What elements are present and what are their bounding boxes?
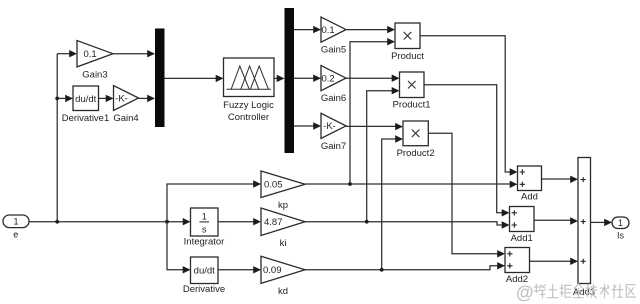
wire ki-branch up to Product1 in2 [367, 91, 392, 222]
svg-text:Product2: Product2 [397, 148, 435, 159]
wire kd-branch up to Product2 in2 [382, 139, 396, 270]
gain Gain5 [321, 17, 346, 56]
svg-text:-K-: -K- [323, 121, 336, 132]
wire branch up to kp [167, 184, 255, 222]
wire Integrator to ki [218, 221, 254, 223]
svg-text:kp: kp [278, 200, 288, 211]
svg-text:Add: Add [521, 192, 538, 203]
wire Add2 out to Add3 [530, 260, 571, 262]
gain kp [261, 171, 305, 211]
node junction e-up [55, 220, 59, 224]
wire Derivative1 to Gain4 [99, 97, 107, 99]
block Add2 [505, 248, 530, 273]
wire Demux out3 to Gain7 [294, 125, 314, 127]
gain Gain6 [321, 66, 346, 105]
svg-text:1: 1 [13, 217, 18, 227]
demux bar [285, 8, 295, 153]
wire to Gain3 [57, 53, 69, 55]
mux bar [155, 29, 165, 128]
svg-text:1: 1 [618, 218, 623, 228]
svg-text:Gain5: Gain5 [321, 45, 346, 56]
svg-text:0.1: 0.1 [84, 49, 97, 60]
wire kp out to Add in2 [305, 183, 511, 185]
svg-text:Gain4: Gain4 [113, 113, 138, 124]
block Add3 [578, 158, 591, 284]
svg-text:Gain3: Gain3 [82, 69, 107, 80]
svg-text:Product: Product [391, 51, 424, 62]
svg-text:ki: ki [280, 238, 287, 249]
svg-text:Derivative: Derivative [183, 284, 225, 295]
svg-text:s: s [202, 225, 207, 235]
wire Product1 out to Add1 in1 [424, 85, 502, 213]
watermark [516, 283, 636, 303]
svg-text:du/dt: du/dt [75, 94, 96, 105]
svg-text:0.1: 0.1 [322, 25, 335, 36]
block Derivative1 [73, 86, 99, 111]
node junction pid branch [165, 220, 169, 224]
block Integrator [191, 208, 219, 236]
wire Demux out2 to Gain6 [294, 77, 314, 79]
wire Add1 out to Add3 [534, 219, 571, 221]
block Derivative [191, 257, 219, 284]
svg-text:kd: kd [278, 286, 288, 297]
wire Gain7 to Product2 in1 [346, 125, 396, 127]
svg-text:Fuzzy Logic: Fuzzy Logic [223, 100, 274, 111]
svg-text:Gain6: Gain6 [321, 93, 346, 104]
svg-text:Integrator: Integrator [184, 237, 225, 248]
wire Add out to Add3 [542, 178, 571, 180]
svg-text:Controller: Controller [228, 112, 269, 123]
svg-text:4.87: 4.87 [264, 217, 283, 228]
gain kd [261, 256, 305, 297]
wire Mux to Fuzzy Logic Controller [165, 77, 217, 79]
node junction kp-product [348, 182, 352, 186]
svg-text:Product1: Product1 [392, 100, 430, 111]
wire Add3 out to output port [591, 221, 605, 223]
wire branch down to Derivative [167, 222, 183, 270]
wire Gain4 to Mux [139, 97, 148, 99]
input port 1 "e" [3, 215, 29, 240]
block Add [518, 166, 542, 191]
gain Gain4 [113, 86, 138, 125]
wire Fuzzy to Demux [274, 77, 277, 79]
wire Demux out1 to Gain5 [294, 29, 314, 31]
svg-text:0.09: 0.09 [263, 265, 282, 276]
wire ki out to Add1 in2 [305, 222, 502, 225]
svg-text:1: 1 [202, 212, 207, 222]
svg-text:0.2: 0.2 [322, 73, 335, 84]
svg-text:e: e [13, 230, 18, 240]
node junction derivative1 branch [55, 97, 59, 101]
svg-text:du/dt: du/dt [194, 265, 215, 276]
block Product2 [403, 121, 428, 146]
wire to Derivative1 [57, 97, 65, 99]
svg-text:Add1: Add1 [511, 233, 533, 244]
block Product1 [400, 72, 425, 98]
wire Product out to Add in1 [420, 36, 510, 172]
fuzzy membership icon [227, 66, 272, 89]
wire kd out to Add2 in2 [305, 266, 498, 270]
svg-text:-K-: -K- [115, 93, 128, 104]
wire Gain3 to Mux [113, 53, 148, 55]
svg-text:Gain7: Gain7 [321, 141, 346, 152]
gain ki [261, 208, 305, 249]
svg-text:@: @ [516, 283, 534, 303]
svg-text:Is: Is [617, 231, 625, 241]
wire kp-branch up to Product in2 [350, 42, 388, 184]
wire e main line [29, 221, 183, 223]
svg-text:0.05: 0.05 [264, 180, 283, 191]
gain Gain7 [321, 113, 346, 152]
node junction ki-product1 [365, 220, 369, 224]
output port 1 "Is" [612, 217, 629, 241]
block Fuzzy Logic Controller [224, 58, 275, 97]
wire vertical up from e [56, 54, 58, 222]
block Product [395, 23, 420, 49]
svg-text:Derivative1: Derivative1 [62, 113, 110, 124]
node junction kd-product2 [380, 268, 384, 272]
wire Gain6 to Product1 in1 [346, 77, 392, 79]
block Add1 [510, 207, 535, 232]
wire arrowhead into Integrator [183, 218, 191, 225]
wire Product2 out to Add2 in1 [428, 133, 497, 254]
gain Gain3 [77, 41, 113, 81]
wire Gain5 to Product in1 [346, 29, 388, 31]
wire Derivative to kd [218, 269, 254, 271]
